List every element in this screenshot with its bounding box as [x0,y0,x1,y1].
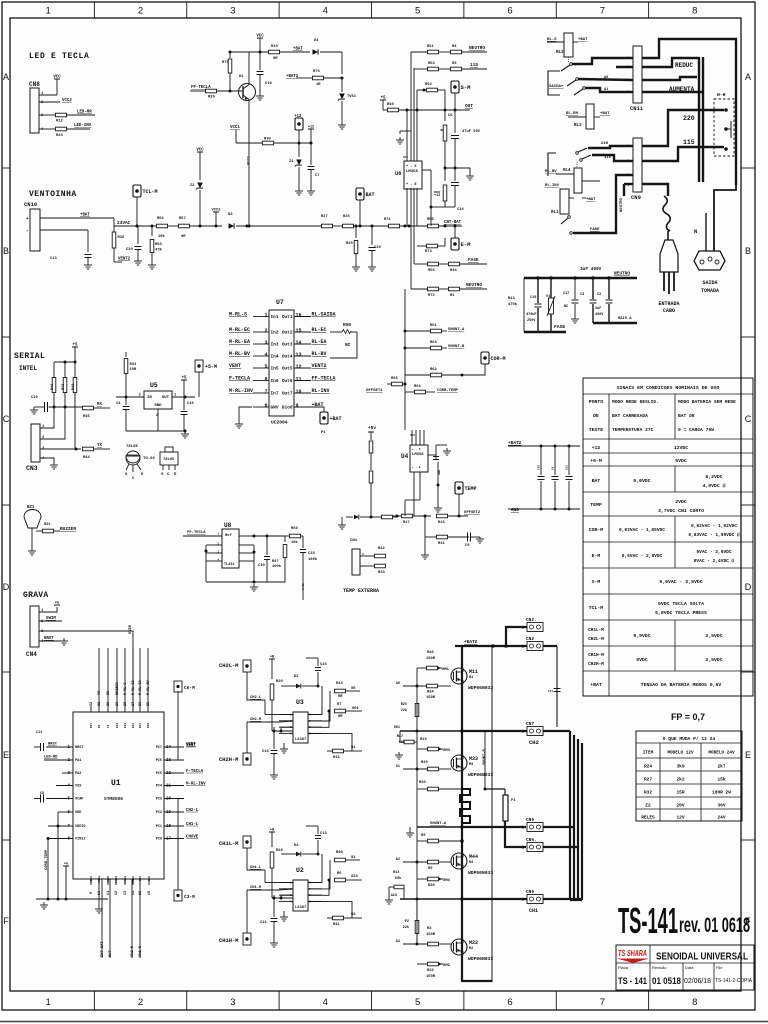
svg-text:0R: 0R [273,57,278,61]
svg-text:Data: Data [685,965,694,970]
svg-text:A: A [3,72,9,82]
svg-text:C6-M: C6-M [184,685,195,691]
svg-text:6: 6 [507,997,512,1008]
svg-text:PB1: PB1 [139,876,142,881]
svg-text:R9: R9 [421,834,426,838]
svg-text:E: E [3,750,9,760]
svg-text:TEMP EXTERNA: TEMP EXTERNA [343,588,379,594]
svg-text:3: 3 [264,340,267,346]
svg-text:+5v: +5v [368,425,376,431]
svg-text:Out2: Out2 [282,330,293,336]
svg-text:Ref: Ref [225,533,232,538]
svg-text:PONTO: PONTO [589,399,604,405]
svg-text:Z1: Z1 [289,160,294,164]
svg-text:115: 115 [604,156,612,160]
svg-text:IN: IN [147,396,152,400]
svg-text:CH1: CH1 [529,908,538,914]
svg-text:BUZZER: BUZZER [116,681,120,695]
svg-text:C17: C17 [563,292,569,296]
svg-text:15k: 15k [717,777,725,783]
svg-text:1: 1 [264,313,267,319]
svg-text:CN6.: CN6. [526,837,537,843]
svg-text:CH2H-M: CH2H-M [219,757,238,763]
svg-text:PC3: PC3 [156,798,162,802]
svg-text:R19: R19 [420,738,427,742]
svg-text:FP = 0,7: FP = 0,7 [671,712,705,722]
svg-text:+BAT: +BAT [578,38,588,42]
svg-text:5: 5 [415,997,420,1008]
svg-text:M-RL-EC: M-RL-EC [229,327,250,333]
svg-text:RL-EA: RL-EA [312,339,327,345]
svg-text:VENTOINHA: VENTOINHA [29,190,77,199]
svg-text:MODELO 24V: MODELO 24V [708,751,735,756]
svg-text:R73: R73 [425,250,432,254]
svg-text:SHUNT-B: SHUNT-B [448,345,465,349]
svg-text:+BAT: +BAT [330,416,342,422]
svg-text:VCC: VCC [53,76,61,80]
svg-text:In7: In7 [271,391,279,397]
svg-text:+ - 8: + - 8 [406,183,417,187]
svg-text:TEMP: TEMP [465,486,477,492]
svg-text:C3: C3 [580,293,584,297]
svg-text:A2: A2 [396,940,400,944]
svg-text:COR-M: COR-M [491,356,506,362]
svg-text:3: 3 [230,997,235,1008]
svg-text:+5: +5 [64,863,68,867]
svg-text:C11: C11 [36,731,42,735]
svg-text:CH2H-M: CH2H-M [588,662,604,667]
svg-text:P1N4: P1N4 [115,876,118,883]
svg-text:M44: M44 [469,854,478,860]
svg-text:Out3: Out3 [282,342,293,348]
svg-text:R11: R11 [438,542,445,546]
svg-text:0,82VAC - 1,92VDC: 0,82VAC - 1,92VDC [691,523,737,529]
svg-text:C5: C5 [448,114,453,118]
svg-text:rev. 01 0618: rev. 01 0618 [679,914,750,937]
svg-text:GND: GND [438,470,441,475]
svg-text:PC2: PC2 [156,811,162,815]
svg-text:+5: +5 [55,602,59,606]
svg-text:R32: R32 [644,790,652,796]
svg-text:R44: R44 [83,456,90,460]
svg-text:C16: C16 [187,402,194,406]
svg-text:150R: 150R [426,657,436,661]
svg-text:TEMP: TEMP [590,502,602,508]
svg-text:C8: C8 [40,792,44,796]
svg-text:M-RL-EA: M-RL-EA [229,339,250,345]
svg-text:78L05: 78L05 [126,445,139,449]
svg-text:SHUNT-A: SHUNT-A [430,822,447,826]
svg-text:Z2: Z2 [190,184,195,188]
svg-text:8: 8 [264,403,267,409]
svg-text:-: - [26,229,29,234]
svg-text:PD0: PD0 [148,876,151,881]
svg-text:CORR-TEMP: CORR-TEMP [45,849,49,870]
svg-text:D: D [3,582,10,592]
svg-text:7: 7 [264,389,267,395]
svg-text:A: A [745,72,751,82]
svg-text:R24: R24 [644,764,652,770]
svg-text:RL3: RL3 [574,123,582,128]
svg-text:R44: R44 [450,269,457,273]
svg-text:O QUE MUDA P/ 12 24: O QUE MUDA P/ 12 24 [663,736,716,742]
svg-text:0VAC - 2,6VDC: 0VAC - 2,6VDC [696,549,731,555]
svg-text:R76: R76 [313,70,320,74]
svg-text:TENSAO DA BATERIA MENOS 0,6V: TENSAO DA BATERIA MENOS 0,6V [641,682,722,688]
svg-text:+BAT: +BAT [586,198,596,202]
svg-text:M3: M3 [469,763,473,767]
svg-text:5,6VDC: 5,6VDC [633,478,650,484]
svg-text:M-RL-BV: M-RL-BV [229,351,250,357]
svg-text:CH2L-M: CH2L-M [588,637,604,642]
svg-text:Revisão: Revisão [652,965,667,970]
svg-text:50k: 50k [395,876,401,881]
svg-text:32: 32 [90,701,94,706]
svg-text:OFFSET2: OFFSET2 [464,511,481,515]
svg-text:R30: R30 [428,884,435,888]
svg-text:In3: In3 [271,342,279,348]
svg-text:MODO REDE DESLIG.: MODO REDE DESLIG. [612,399,659,405]
svg-text:TS SHARA: TS SHARA [618,948,647,958]
svg-text:F-TECLA: F-TECLA [186,770,204,774]
svg-text:RX: RX [97,403,102,407]
svg-text:Placa: Placa [618,965,629,970]
svg-text:CH1-M: CH1-M [250,886,262,890]
svg-text:RL-EM: RL-EM [566,112,579,116]
svg-text:P1: P1 [321,431,326,435]
svg-text:E-M: E-M [461,241,472,248]
svg-text:P00: P00 [147,723,150,728]
svg-text:15: 15 [296,328,302,334]
svg-text:22k: 22k [401,708,407,713]
svg-text:M-RL-INV: M-RL-INV [229,388,253,394]
svg-text:N: N [694,228,697,235]
svg-text:RAIO A: RAIO A [618,317,632,321]
svg-text:NEUTRO: NEUTRO [466,282,482,288]
svg-text:R41: R41 [333,923,340,927]
svg-text:CHAVE: CHAVE [186,835,199,839]
svg-text:115: 115 [470,62,478,68]
svg-text:R29: R29 [346,242,353,246]
svg-text:TS - 141: TS - 141 [618,976,647,986]
svg-text:0VAC - 2,4VDC @: 0VAC - 2,4VDC @ [694,558,735,564]
svg-text:C16: C16 [320,663,327,667]
svg-text:SAIDA: SAIDA [702,280,717,286]
svg-text:R19: R19 [271,45,278,49]
svg-text:A1N3: A1N3 [124,876,127,883]
svg-text:M33: M33 [469,756,478,762]
svg-text:C13: C13 [50,257,57,261]
svg-text:CN6: CN6 [526,817,534,823]
svg-text:R13: R13 [393,871,399,875]
svg-text:R20: R20 [208,96,215,100]
svg-text:VDDIO: VDDIO [75,825,86,829]
svg-text:Out4: Out4 [282,354,293,360]
svg-text:0,6VAC - 2,8VDC: 0,6VAC - 2,8VDC [622,553,663,559]
svg-text:VDD: VDD [75,811,81,815]
svg-text:M11: M11 [469,669,478,675]
svg-text:Out1: Out1 [282,314,293,320]
svg-text:470k: 470k [508,302,518,307]
svg-text:RELES: RELES [641,815,655,821]
svg-text:0VDC TECLA SOLTA: 0VDC TECLA SOLTA [658,601,704,607]
svg-text:RL-BV: RL-BV [312,351,327,357]
svg-text:S-M: S-M [461,84,472,91]
svg-text:9: 9 [296,403,299,409]
svg-text:7: 7 [600,997,605,1008]
svg-text:PC1: PC1 [156,825,162,829]
svg-text:0.01: 0.01 [302,583,305,590]
svg-text:100R 2W: 100R 2W [712,790,731,796]
svg-text:CH2-M: CH2-M [250,718,262,722]
svg-text:SWIM: SWIM [129,624,133,634]
svg-text:C21: C21 [566,465,569,470]
svg-text:R46: R46 [51,384,55,390]
svg-text:400V: 400V [595,313,604,317]
svg-text:02/06/18: 02/06/18 [684,976,711,985]
svg-text:FASE: FASE [590,228,600,232]
svg-text:U2: U2 [296,867,304,874]
svg-text:16: 16 [296,313,302,319]
svg-text:R20: R20 [276,680,283,684]
svg-text:20V: 20V [676,803,684,809]
svg-text:D4: D4 [314,39,319,43]
svg-text:12VDC: 12VDC [674,445,689,451]
svg-text:NEUTRO: NEUTRO [614,271,630,277]
svg-text:R32: R32 [427,969,434,973]
svg-text:A0: A0 [604,76,608,80]
svg-text:R20: R20 [419,781,426,785]
svg-text:R4: R4 [452,45,457,49]
svg-text:7: 7 [600,6,605,17]
svg-text:D2: D2 [294,675,299,679]
svg-text:2k2: 2k2 [676,777,684,783]
svg-text:115: 115 [683,139,695,146]
svg-text:RL-INV: RL-INV [312,388,330,394]
svg-text:R26: R26 [401,703,407,707]
svg-text:14: 14 [132,890,136,895]
svg-text:R36: R36 [118,236,125,240]
svg-text:VENT: VENT [186,743,196,747]
svg-text:CN2: CN2 [526,636,534,642]
svg-text:R51: R51 [427,45,434,49]
svg-text:R70: R70 [222,61,229,65]
svg-text:4: 4 [323,6,328,17]
svg-text:TOMADA: TOMADA [701,288,719,294]
svg-text:STM8S00: STM8S00 [104,796,123,802]
svg-text:5VDC: 5VDC [675,458,687,464]
svg-text:VCC1: VCC1 [230,126,240,130]
svg-text:Out5: Out5 [282,366,293,372]
svg-text:+12: +12 [592,445,601,451]
svg-text:1R: 1R [316,83,321,87]
svg-text:SINAIS EM CONDICOES NOMINAIS D: SINAIS EM CONDICOES NOMINAIS DE USO [617,385,720,391]
svg-text:C2: C2 [597,293,601,297]
svg-text:L6387: L6387 [295,906,306,910]
svg-text:VENT2: VENT2 [312,363,327,369]
svg-text:RL-BV: RL-BV [545,170,557,174]
svg-text:220: 220 [683,115,695,122]
svg-text:R49: R49 [387,103,394,107]
svg-text:C19: C19 [530,296,536,300]
svg-text:CN9: CN9 [631,194,641,201]
svg-text:+ - 8: + - 8 [412,466,421,469]
svg-text:G1: G1 [351,746,356,750]
svg-text:G2: G2 [351,913,356,917]
svg-text:R53: R53 [428,62,435,66]
svg-text:VCAP: VCAP [75,798,83,802]
svg-text:LM358: LM358 [406,170,419,174]
svg-text:VIN12: VIN12 [75,838,86,842]
svg-text:PC5: PC5 [156,772,162,776]
svg-text:C7: C7 [315,174,319,178]
svg-text:78L05: 78L05 [163,458,175,462]
svg-text:22k: 22k [403,925,409,930]
svg-text:0R: 0R [338,715,343,719]
svg-text:S-M: S-M [592,579,601,585]
svg-text:CN6: CN6 [526,889,534,895]
svg-text:R6: R6 [337,872,342,876]
svg-text:M-RL-EA: M-RL-EA [139,679,143,695]
svg-text:R14: R14 [336,682,343,686]
svg-text:16: 16 [148,890,152,895]
svg-text:FASE: FASE [468,257,479,263]
svg-text:G0: G0 [351,687,356,691]
svg-text:NRST: NRST [48,743,58,747]
svg-text:M4: M4 [469,861,473,865]
svg-text:CN7: CN7 [526,721,534,727]
svg-text:ENTRADA: ENTRADA [658,301,679,307]
svg-text:C14: C14 [262,750,269,754]
svg-text:PX: PX [98,724,101,728]
svg-text:R16: R16 [438,521,445,525]
svg-text:+12: +12 [308,126,314,130]
svg-text:+BAT: +BAT [590,682,602,688]
svg-text:GM3: GM3 [443,749,451,753]
svg-text:8: 8 [692,997,697,1008]
svg-text:R64: R64 [414,385,421,389]
svg-text:AUMENTA: AUMENTA [669,86,695,93]
svg-text:100k: 100k [308,557,318,562]
svg-text:NC: NC [564,305,568,309]
svg-text:VCC: VCC [410,434,415,437]
svg-text:47K: 47K [155,249,162,253]
svg-text:A1: A1 [604,88,608,92]
svg-text:MODELO 12V: MODELO 12V [667,751,694,756]
svg-text:VENT2: VENT2 [118,258,131,262]
svg-text:+BAT: +BAT [293,48,303,52]
svg-text:RL-EC: RL-EC [312,327,327,333]
svg-text:2: 2 [138,997,143,1008]
svg-text:TVS1: TVS1 [347,95,357,99]
svg-text:UC2004: UC2004 [271,420,288,426]
svg-text:100k: 100k [272,564,282,569]
svg-text:RL-INV: RL-INV [545,184,560,188]
svg-text:01 0518: 01 0518 [652,976,681,986]
svg-text:NEUTRO: NEUTRO [469,45,485,51]
svg-text:150R: 150R [426,696,436,700]
svg-text:C: C [3,414,10,424]
svg-text:ITEM: ITEM [643,751,654,756]
svg-text:In1: In1 [271,314,279,320]
svg-text:DE: DE [593,413,599,419]
svg-text:NRST: NRST [44,637,54,641]
svg-text:R50: R50 [155,243,162,247]
svg-text:3: 3 [230,6,235,17]
svg-text:OUT: OUT [109,950,113,957]
svg-text:CH1-L: CH1-L [250,866,262,870]
svg-text:10: 10 [296,389,302,395]
svg-text:WDP06N033: WDP06N033 [468,685,493,691]
svg-text:R27: R27 [321,215,328,219]
svg-text:R23: R23 [56,134,63,138]
svg-text:VCC2: VCC2 [212,209,222,213]
svg-text:D3: D3 [228,213,233,217]
svg-text:47uF 50V: 47uF 50V [462,130,481,134]
svg-text:R46: R46 [427,651,434,655]
svg-text:CH1H-M: CH1H-M [588,653,604,658]
svg-text:B: B [745,246,751,256]
svg-text:0VDC: 0VDC [636,657,648,663]
svg-text:R56: R56 [428,269,435,273]
svg-text:RL4: RL4 [563,168,571,173]
svg-text:F: F [3,916,9,926]
svg-text:R26: R26 [343,215,350,219]
svg-text:BAT CARREGADA: BAT CARREGADA [612,413,648,419]
svg-text:GM2: GM2 [443,964,451,968]
svg-text:TCL-M: TCL-M [143,189,158,195]
svg-text:P01: P01 [139,723,142,728]
svg-text:1: 1 [46,997,51,1008]
svg-text:TO-92: TO-92 [143,457,156,461]
svg-text:RL1: RL1 [551,210,559,215]
svg-text:In6: In6 [271,378,279,384]
svg-text:C27: C27 [548,690,553,693]
svg-text:13: 13 [124,890,128,895]
svg-text:+BAT2: +BAT2 [508,440,522,446]
svg-text:0,6VAC - 2,5VDC: 0,6VAC - 2,5VDC [659,579,702,585]
svg-text:CN3: CN3 [26,465,38,472]
svg-text:PC6: PC6 [156,759,162,763]
svg-text:D2: D2 [294,844,299,848]
svg-text:M2: M2 [469,947,473,951]
svg-text:R72: R72 [428,294,435,298]
svg-text:LED-INV: LED-INV [74,124,92,128]
svg-text:C24: C24 [457,208,464,212]
svg-text:2uF: 2uF [595,307,601,311]
svg-text:4,9VDC @: 4,9VDC @ [702,483,725,489]
svg-text:R63: R63 [430,341,437,345]
svg-text:CH2-L: CH2-L [186,809,199,813]
svg-text:R60: R60 [291,527,298,531]
svg-text:TS-141: TS-141 [618,900,678,941]
svg-text:+5-M: +5-M [205,364,217,370]
svg-text:CH2L-M: CH2L-M [219,663,238,669]
svg-text:CN11: CN11 [630,105,644,112]
svg-text:+5: +5 [182,377,187,381]
svg-text:13: 13 [296,352,302,358]
svg-text:R1: R1 [450,294,455,298]
svg-text:C4: C4 [552,466,555,470]
svg-text:NEUTRO: NEUTRO [620,197,624,212]
svg-text:CN8: CN8 [29,81,40,88]
svg-text:C19: C19 [31,396,38,400]
svg-text:2,5VDC: 2,5VDC [705,657,722,663]
svg-text:U1: U1 [111,779,121,788]
svg-text:MODO BATERIA SEM REDE: MODO BATERIA SEM REDE [678,399,736,405]
svg-text:PA2: PA2 [75,772,81,776]
svg-text:BAT: BAT [592,478,601,484]
